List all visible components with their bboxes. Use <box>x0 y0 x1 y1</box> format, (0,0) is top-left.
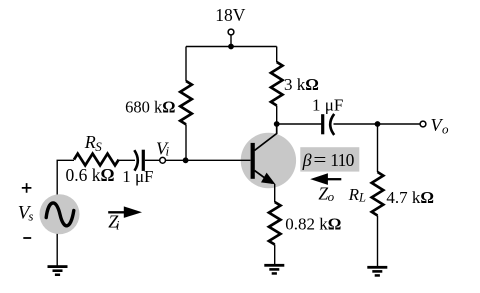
wire RL to ground <box>377 216 379 267</box>
resistor RL 4.7 kOhm <box>348 172 434 216</box>
wire capacitor C2 to RL node <box>334 123 421 125</box>
transistor Q1 collector lead <box>255 124 277 151</box>
impedance Zi arrow <box>108 206 142 232</box>
node supply junction <box>228 44 234 50</box>
source Vs <box>18 183 80 238</box>
svg-text:680 kΩ: 680 kΩ <box>125 98 175 117</box>
wire 3k to collector node <box>276 106 278 125</box>
resistor RS 0.6 kOhm <box>66 132 119 185</box>
terminal Vo <box>420 115 449 137</box>
supply 18V terminal <box>215 5 246 47</box>
ground emitter <box>264 264 284 275</box>
svg-text:4.7 kΩ: 4.7 kΩ <box>386 188 434 207</box>
svg-text:=: = <box>313 150 326 171</box>
ground RL <box>367 266 387 277</box>
impedance Zo arrow <box>310 173 341 204</box>
wire capacitor C1 to Vi <box>145 159 160 161</box>
svg-text:β: β <box>302 150 312 170</box>
svg-text:Zi: Zi <box>108 212 120 233</box>
terminal Vi <box>156 139 170 164</box>
wire top rail <box>186 46 277 48</box>
wire left branch upper <box>185 47 187 82</box>
svg-text:1 μF: 1 μF <box>312 96 343 115</box>
wire left branch lower <box>185 124 187 160</box>
svg-text:18V: 18V <box>215 5 246 25</box>
wire RL node down <box>377 124 379 172</box>
resistor R1 680 kOhm <box>125 81 192 124</box>
transistor Q1 emitter lead <box>255 171 276 185</box>
node Vi junction <box>183 157 189 163</box>
node RL junction <box>375 121 381 127</box>
wire source to ground <box>56 234 58 266</box>
wire Rs to capacitor C1 <box>119 159 135 161</box>
label beta = 110 <box>300 147 359 171</box>
capacitor C1 1uF input <box>122 150 153 186</box>
wire right branch upper <box>276 47 278 63</box>
wire collector node to capacitor C2 <box>277 123 322 125</box>
node collector junction <box>274 121 280 127</box>
capacitor C2 1uF output <box>312 96 343 135</box>
svg-text:0.82 kΩ: 0.82 kΩ <box>285 214 341 233</box>
resistor RE 0.82 kOhm <box>269 202 341 245</box>
wire source to RS <box>57 160 74 194</box>
wire base row <box>166 159 251 161</box>
resistor RC 3 kOhm <box>271 62 319 106</box>
ground source <box>48 265 68 276</box>
svg-text:0.6 kΩ: 0.6 kΩ <box>66 165 115 185</box>
wire RE to ground <box>274 245 276 265</box>
svg-text:110: 110 <box>330 150 354 170</box>
wire emitter down <box>274 184 276 202</box>
transistor Q1 body <box>241 133 296 188</box>
transistor Q1 base bar <box>251 143 255 179</box>
svg-text:1 μF: 1 μF <box>122 167 153 186</box>
svg-text:3 kΩ: 3 kΩ <box>284 75 319 94</box>
